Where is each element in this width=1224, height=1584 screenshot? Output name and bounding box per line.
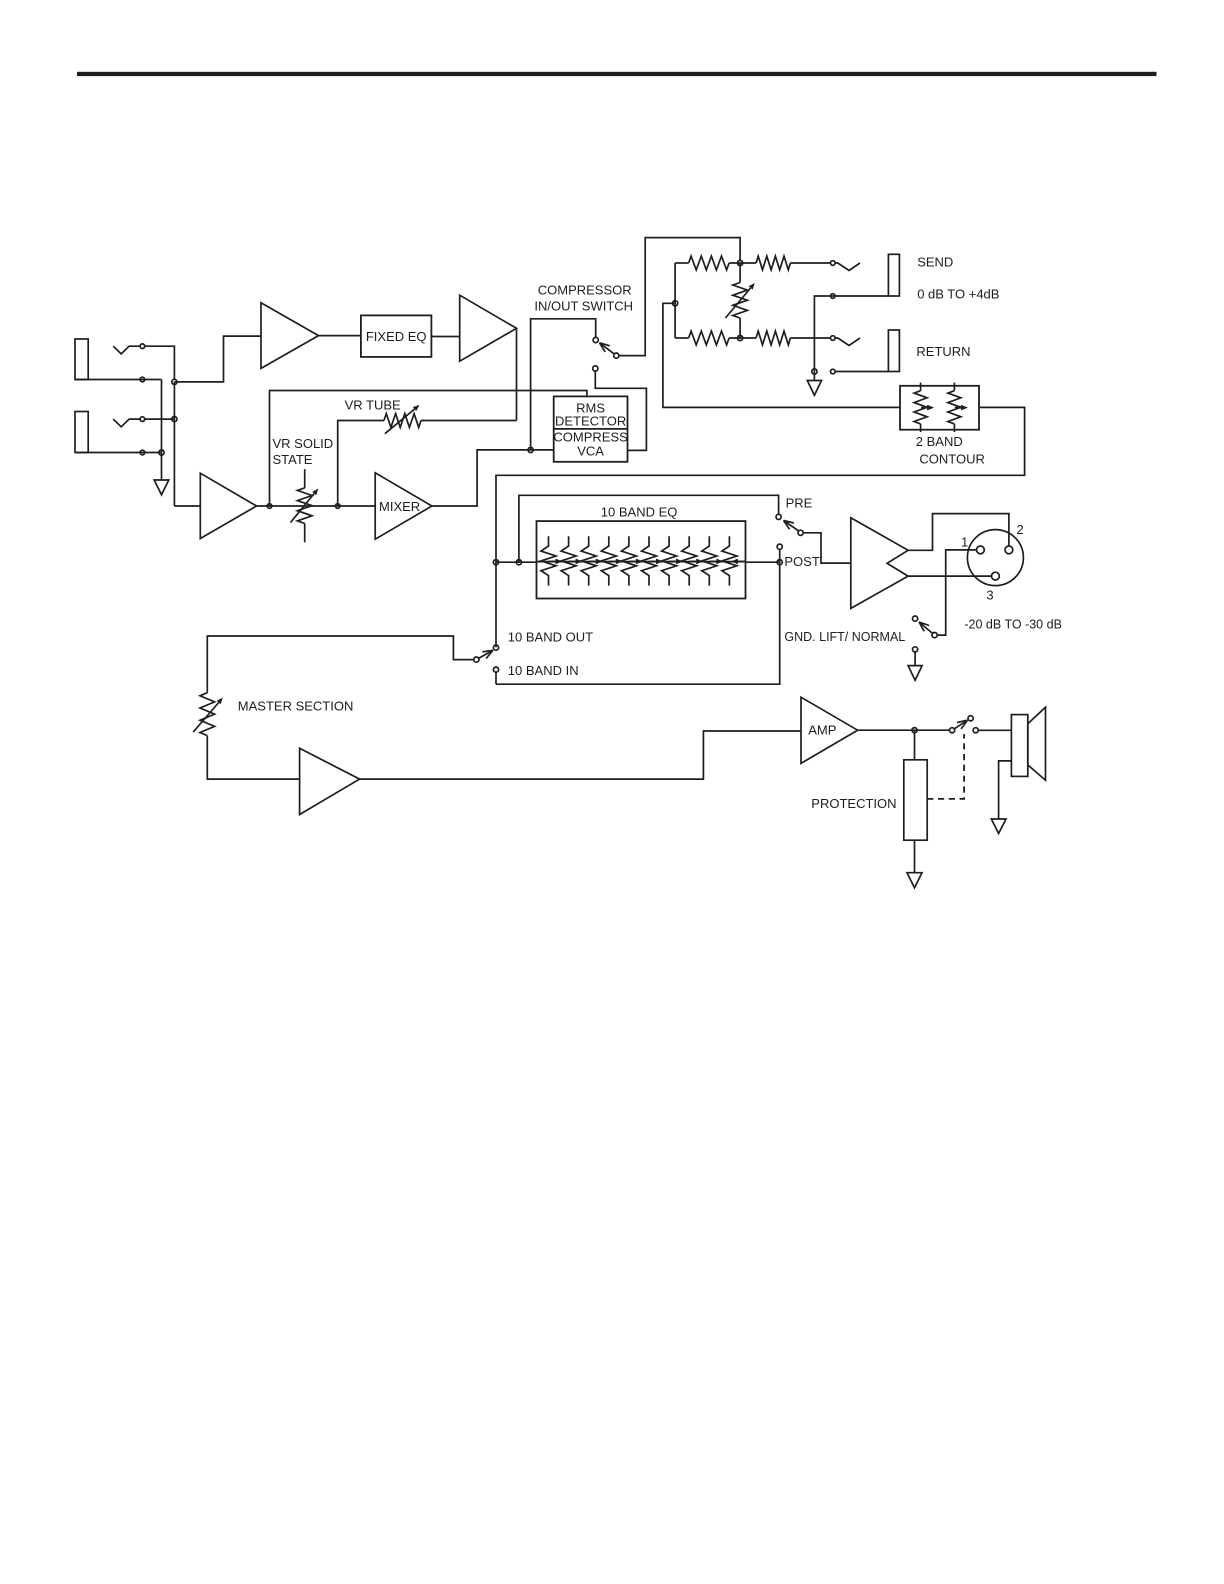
svg-text:GND. LIFT/ NORMAL: GND. LIFT/ NORMAL (784, 630, 905, 644)
contour pot 2 stub bottom (953, 424, 955, 432)
wire A2 output down (516, 328, 518, 420)
switch S1 common (614, 353, 619, 358)
op-amp A1 (input preamp) (261, 303, 319, 369)
divider RMS/VCA (554, 428, 628, 430)
wire node to preamp A1 input (174, 336, 261, 382)
svg-text:RETURN: RETURN (916, 344, 970, 359)
wire pin1 to pad (937, 550, 977, 635)
EQ wiper arrow 7 (670, 560, 677, 562)
wire S2 common to master out amp (803, 533, 851, 563)
svg-text:COMPRESSOR: COMPRESSOR (538, 282, 632, 297)
XLR connector circle (967, 530, 1023, 586)
EQ wiper arrow 9 (710, 560, 717, 562)
svg-text:0 dB TO +4dB: 0 dB TO +4dB (917, 287, 999, 302)
contour pot 1 wiper arrow (921, 407, 927, 409)
wire J2 sleeve (75, 452, 162, 454)
svg-text:PROTECTION: PROTECTION (811, 796, 896, 811)
input jack J1 sleeve contact circle (140, 377, 145, 382)
EQ slider pot 6 (642, 536, 657, 585)
EQ slider pot 2 (561, 536, 576, 585)
potentiometer VR SOLID STATE zigzag (297, 488, 312, 524)
svg-text:STATE: STATE (273, 452, 313, 467)
switch S1 contact in (593, 366, 598, 371)
EQ wiper arrow 5 (629, 560, 636, 562)
switch S1 contact out (593, 337, 598, 342)
wire lower out to pin3 (908, 575, 991, 577)
send jack tip contact circle (831, 261, 836, 266)
wire S1 common to send loop (619, 238, 741, 356)
block PROTECTION resistor body (904, 760, 927, 840)
wire S5 to speaker (978, 729, 1011, 731)
svg-text:2 BAND: 2 BAND (916, 434, 963, 449)
svg-text:CONTOUR: CONTOUR (919, 451, 984, 466)
wire VR tube to A2 output (421, 420, 517, 422)
svg-text:COMPRESS: COMPRESS (553, 429, 628, 444)
EQ slider pot 3 (581, 536, 596, 585)
wire PRE tap up (519, 495, 779, 562)
svg-text:IN/OUT SWITCH: IN/OUT SWITCH (534, 298, 633, 313)
wire A4 out to AMP (360, 731, 801, 779)
dashed link protection to relay (927, 734, 964, 799)
wire top row lead1 (675, 262, 689, 264)
potentiometer VR TUBE wiper arrow (385, 409, 415, 434)
op-amp A4 (master buffer) (300, 748, 360, 814)
switch S3 lever (919, 622, 933, 634)
XLR pin 2 (1005, 546, 1013, 554)
junction bottom row (738, 335, 743, 340)
switch S2 lever (784, 521, 799, 532)
node signal bus / preamp feed (172, 379, 177, 384)
ground symbol gnd-lift (908, 666, 922, 681)
svg-text:2: 2 (1017, 522, 1024, 537)
switch S3 common (932, 633, 937, 638)
junction sleeve/ground bus (159, 450, 164, 455)
switch S4 10-band-in contact (493, 667, 498, 672)
node signal bus / J2 tip (172, 417, 177, 422)
EQ wiper arrow 10 (738, 560, 746, 562)
EQ wiper arrow 1 (549, 560, 556, 562)
svg-text:10 BAND EQ: 10 BAND EQ (601, 505, 678, 520)
contour pot 2 stub top (953, 383, 955, 391)
return jack body (888, 330, 899, 372)
wire POST contact stub (779, 549, 781, 562)
signal bus vertical (173, 382, 175, 506)
potentiometer MASTER zigzag (200, 693, 215, 736)
switch S5 common (950, 728, 955, 733)
op-amp MIXER (375, 473, 432, 539)
block FIXED EQ box (361, 315, 432, 357)
return jack tip contact circle (831, 336, 836, 341)
potentiometer send level wiper arrow (725, 288, 750, 318)
wire sleeve junction to ground (813, 372, 815, 381)
junction protection tap (912, 728, 917, 733)
EQ slider pot 4 (601, 536, 616, 585)
switch S5 open contact (968, 716, 973, 721)
wire bottom row lead2 (729, 337, 756, 339)
speaker body (1011, 715, 1027, 777)
resistor send series R1 (689, 256, 730, 270)
junction top row (738, 260, 743, 265)
wire S4 common to master pot (207, 636, 474, 693)
wire bottom bus (496, 562, 780, 684)
switch S1 lever (600, 343, 615, 354)
EQ slider pot 7 (662, 536, 677, 585)
switch S5 lever (954, 720, 967, 729)
power amp AMP triangle (801, 697, 858, 763)
input jack J1 tip contact (113, 346, 140, 354)
svg-text:FIXED EQ: FIXED EQ (366, 329, 427, 344)
junction contour tap (673, 301, 678, 306)
wire EQ internal bus (537, 561, 746, 563)
junction sleeve ground (812, 369, 817, 374)
EQ slider pot 9 (702, 536, 717, 585)
resistor send series R2 (756, 256, 790, 270)
svg-text:PRE: PRE (786, 496, 813, 511)
switch S2 POST contact (777, 544, 782, 549)
wire EQ input (496, 561, 537, 563)
XLR pin 1 (977, 546, 985, 554)
EQ slider pot 5 (621, 536, 636, 585)
switch S4 10-band-out contact (493, 645, 498, 650)
potentiometer MASTER wiper arrow (193, 703, 219, 733)
svg-text:10 BAND IN: 10 BAND IN (508, 663, 579, 678)
ground symbol protection (907, 873, 922, 888)
svg-text:MIXER: MIXER (379, 499, 420, 514)
wire 10-band-in stub (495, 672, 497, 684)
svg-text:VR SOLID: VR SOLID (273, 436, 334, 451)
potentiometer VR SOLID STATE stub2 (304, 523, 306, 542)
wire top row lead2 (729, 262, 756, 264)
potentiometer VR SOLID STATE stub (304, 469, 306, 488)
svg-text:1: 1 (961, 535, 968, 550)
svg-text:-20 dB TO -30 dB: -20 dB TO -30 dB (964, 618, 1062, 632)
block 10 BAND EQ box (537, 521, 746, 598)
wire J2 tip to signal bus (145, 418, 175, 420)
contour pot 1 stub bottom (920, 424, 922, 432)
junction EQ in bus (493, 560, 498, 565)
send jack body (888, 254, 899, 296)
switch S3 normal contact (913, 647, 918, 652)
wire top row lead3 (790, 262, 830, 264)
return jack sleeve contact circle (831, 369, 836, 374)
wire AMP out to speaker switch (858, 729, 950, 731)
svg-text:VR TUBE: VR TUBE (345, 398, 401, 413)
wire J1 sleeve (75, 379, 162, 381)
potentiometer contour 1 zigzag (914, 391, 927, 424)
switch S2 PRE contact (776, 514, 781, 519)
switch S3 lift contact (913, 616, 918, 621)
ground symbol input (154, 480, 169, 495)
svg-text:SEND: SEND (917, 255, 953, 270)
contour pot 1 stub top (920, 383, 922, 391)
potentiometer send level stub top (739, 263, 741, 283)
svg-text:3: 3 (986, 588, 993, 603)
ground symbol send/return (807, 381, 821, 396)
op-amp A2 (tube-stage amp) (460, 295, 517, 361)
XLR pin 3 (992, 572, 1000, 580)
switch S4 lever (479, 650, 493, 658)
contour pot 2 wiper arrow (955, 407, 961, 409)
wire A1 out to FIXED EQ (319, 335, 361, 337)
wire loop left vertical (674, 263, 676, 338)
potentiometer VR TUBE zigzag (384, 414, 421, 428)
wire send sleeve (814, 296, 888, 372)
potentiometer contour 2 zigzag (948, 391, 961, 424)
junction PRE tap (516, 560, 521, 565)
wire bypass up to switch (531, 319, 596, 450)
wire tap to contour (663, 303, 900, 407)
EQ slider pot 1 (541, 536, 556, 585)
wire EQ output (746, 561, 780, 563)
wire J1 tip to signal bus (145, 346, 175, 379)
EQ wiper arrow 4 (609, 560, 616, 562)
EQ wiper arrow 2 (569, 560, 576, 562)
resistor return series R4 (756, 331, 790, 345)
wire S3 normal to ground (914, 652, 916, 666)
op-amp balanced line driver (851, 518, 908, 609)
op-amp A3 (solid state preamp) (200, 473, 256, 538)
input jack J1 tip contact circle (140, 344, 145, 349)
wire bottom row lead1 (675, 337, 689, 339)
switch S2 common (798, 530, 803, 535)
potentiometer send level stub bottom (739, 318, 741, 338)
svg-text:10 BAND OUT: 10 BAND OUT (508, 630, 593, 645)
input jack J2 sleeve contact circle (140, 450, 145, 455)
wire mixer out to VCA (432, 450, 554, 506)
switch S5 out contact (973, 728, 978, 733)
wire master pot to amp A4 (207, 736, 299, 780)
wire VCA out to switch in (595, 371, 646, 451)
switch S4 10-band-out common (474, 657, 479, 662)
EQ slider pot 8 (682, 536, 697, 585)
header rule (77, 72, 1157, 76)
svg-text:VCA: VCA (577, 443, 604, 458)
EQ wiper arrow 8 (690, 560, 697, 562)
node direct feed (267, 504, 272, 509)
block RMS DETECTOR / COMPRESS VCA box (554, 396, 628, 461)
wire return sleeve (835, 371, 888, 373)
return jack tip contact (835, 338, 860, 346)
potentiometer VR SOLID STATE wiper arrow (291, 494, 315, 523)
wire speaker return (999, 761, 1012, 819)
svg-text:MASTER SECTION: MASTER SECTION (238, 699, 354, 714)
EQ wiper arrow 6 (650, 560, 657, 562)
wire protection tap down (914, 730, 916, 760)
speaker horn (1028, 707, 1046, 780)
block 2 BAND CONTOUR box (900, 386, 979, 430)
input jack J2 tip contact circle (140, 417, 145, 422)
ground symbol speaker (991, 819, 1006, 834)
wire VR tube node up (338, 421, 384, 507)
wire signal bus to amp A3 input (174, 505, 200, 507)
junction VCA input / bypass (528, 447, 533, 452)
send jack sleeve contact circle (831, 294, 836, 299)
junction EQ out / POST (777, 560, 782, 565)
svg-text:POST: POST (784, 554, 819, 569)
wire FIXED EQ to amp A2 (431, 336, 459, 338)
wire node up to RMS direct line (270, 391, 587, 507)
input jack J2 sleeve body (75, 412, 88, 453)
wire bottom row lead3 (790, 337, 830, 339)
EQ wiper arrow 3 (589, 560, 596, 562)
wire upper out to pin2 (908, 514, 1009, 551)
node VR tube feed (335, 504, 340, 509)
send jack tip contact (835, 263, 860, 271)
input jack J2 tip contact (113, 419, 140, 427)
EQ slider pot 10 (722, 536, 737, 585)
wire A3 out to mixer (257, 505, 376, 507)
svg-text:DETECTOR: DETECTOR (555, 414, 626, 429)
svg-text:AMP: AMP (808, 723, 836, 738)
ground bus vertical (161, 380, 163, 481)
resistor return series R3 (689, 331, 730, 345)
potentiometer send level zigzag (733, 283, 748, 319)
wire protection to ground (914, 840, 916, 873)
input jack J1 sleeve body (75, 339, 88, 380)
wire contour out to EQ bus (496, 407, 1025, 647)
